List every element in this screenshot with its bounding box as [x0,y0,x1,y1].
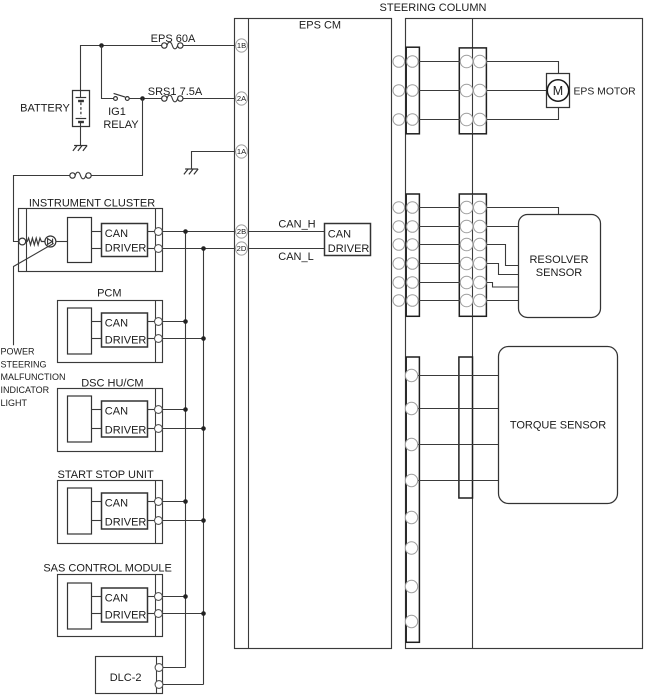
diagonal pointer to indicator light [14,243,54,345]
svg-text:STEERING COLUMN: STEERING COLUMN [380,2,487,14]
pin 1A [236,145,248,158]
steering column inner shaft line [472,19,474,649]
svg-text:CAN: CAN [105,498,128,510]
wires START STOP UNIT block to CAN driver [92,501,102,503]
instrument cluster CAN_L pin [155,245,163,253]
battery B+ [73,91,90,127]
svg-text:1A: 1A [237,147,247,156]
relay IG1 switch [114,97,118,101]
wires CAN driver to DSC HU/CM pins [148,409,155,411]
wire CAN_H into EPS CM [249,231,325,233]
svg-text:SAS CONTROL MODULE: SAS CONTROL MODULE [43,562,172,574]
DSC HU/CM inner block [68,396,92,442]
wire motor circuit row 2 [412,90,466,92]
junction dot PCM CAN_L [201,336,206,341]
PCM box [58,301,163,363]
svg-text:2A: 2A [237,94,247,103]
PCM CAN_L pin [155,335,163,343]
START STOP UNIT inner block [68,488,92,534]
wires SAS CONTROL MODULE block to CAN driver [92,596,102,598]
svg-text:SRS1 7.5A: SRS1 7.5A [148,86,203,98]
junction dot DSC HU/CM CAN_L [201,426,206,431]
DLC-2 box [96,657,163,694]
wires CAN driver to cluster pins [148,231,155,233]
svg-text:CAN: CAN [105,593,128,605]
wire resolver 5 [480,283,519,288]
wires CAN driver to START STOP UNIT pins [148,501,155,503]
svg-text:TORQUE SENSOR: TORQUE SENSOR [510,419,606,431]
svg-text:EPS 60A: EPS 60A [151,33,196,45]
wire resolver 6 [480,300,519,302]
instrument cluster box [19,209,163,272]
torque sensor connector block [406,357,419,642]
wire motor circuit row 1 [412,61,466,63]
fuse cluster feed [75,172,86,179]
SAS CONTROL MODULE inner block [68,583,92,629]
svg-text:CAN_L: CAN_L [278,251,313,263]
DSC HU/CM CAN_L pin [155,425,163,433]
wire IG branch down to cluster fuse [90,99,142,176]
pin 2D [236,242,248,255]
svg-text:DRIVER: DRIVER [105,243,147,255]
junction dot START STOP UNIT CAN_L [201,518,206,523]
junction dot SAS CONTROL MODULE CAN_H [183,594,188,599]
svg-text:START STOP UNIT: START STOP UNIT [58,469,154,481]
wire torque sensor 2 [412,408,499,410]
DSC HU/CM CAN_H pin [155,406,163,414]
wire battery negative to ground [80,122,82,145]
wire PCM to CAN_H bus [162,321,185,323]
column connector block (resolver circuit) [459,194,486,316]
shaft line over motor connector [472,48,474,134]
wire torque sensor 4 [412,480,499,482]
steering column box [406,19,643,649]
svg-text:LIGHT: LIGHT [1,398,28,408]
svg-text:RELAY: RELAY [103,119,139,131]
svg-text:INDICATOR: INDICATOR [1,385,50,395]
svg-text:MALFUNCTION: MALFUNCTION [1,372,66,382]
svg-text:RESOLVER: RESOLVER [529,254,588,266]
wire resolver 4 [480,264,519,275]
svg-text:BATTERY: BATTERY [20,103,70,115]
instrument cluster right rail [155,209,157,272]
wire cluster to pin 2B [162,231,235,233]
svg-text:POWER: POWER [1,347,36,357]
DSC HU/CM box [58,389,163,452]
wire cluster fuse to instrument cluster pin [14,176,70,242]
instrument cluster CAN_H pin [155,228,163,236]
wire connector to EPS motor phase 1 [480,62,559,74]
svg-text:CAN: CAN [105,406,128,418]
EPS motor M1 [547,74,570,108]
connector pins (motor circuit, column side) [460,55,473,68]
junction dot PCM CAN_H [183,319,188,324]
wires CAN driver to SAS CONTROL MODULE pins [148,596,155,598]
wire connector to EPS motor phase 3 [480,108,559,120]
START STOP UNIT box [58,481,163,544]
wire SAS CONTROL MODULE to CAN_H bus [162,596,185,598]
CAN driver (SAS CONTROL MODULE) [102,588,148,622]
svg-text:DRIVER: DRIVER [328,243,370,255]
EPS CM module box [235,19,392,649]
wire motor circuit row 3 [412,119,466,121]
CAN driver (DSC HU/CM) [102,401,148,437]
wire cluster to pin 2D [162,248,235,250]
svg-text:2B: 2B [237,227,246,236]
ground battery [74,145,87,147]
wire resolver circuit row 6 [412,300,466,302]
torque sensor inner connector [459,357,473,498]
junction dot battery feed [99,43,104,48]
EPS CM to column connector block (resolver circuit) [406,194,419,316]
svg-text:CAN: CAN [105,318,128,330]
ground EPS CM 1A [185,168,198,170]
CAN_H bus wire [185,232,187,668]
CAN driver (PCM) [102,313,148,347]
CAN driver (START STOP UNIT) [102,493,148,529]
svg-text:EPS MOTOR: EPS MOTOR [574,86,637,97]
wires cluster block to CAN driver [92,231,102,233]
connector pins (motor circuit, EPS CM side) [393,56,405,68]
svg-text:DRIVER: DRIVER [105,516,147,528]
connector pins (resolver circuit, column side) [460,201,473,214]
svg-text:1B: 1B [237,41,246,50]
resistor in cluster [26,238,45,245]
wire torque sensor 3 [412,444,499,446]
svg-text:DRIVER: DRIVER [105,609,147,621]
wires DSC HU/CM block to CAN driver [92,409,102,411]
svg-text:STEERING: STEERING [1,359,47,369]
wire DLC-2 to CAN_H bus [163,667,186,669]
svg-text:DSC HU/CM: DSC HU/CM [81,377,143,389]
START STOP UNIT CAN_L pin [155,517,163,525]
wire START STOP UNIT to CAN_L bus [162,520,203,522]
wire DLC-2 to CAN_L bus [163,684,204,686]
svg-text:EPS CM: EPS CM [299,20,341,32]
EPS CM to column connector block (motor circuit) [406,47,419,134]
wire SAS CONTROL MODULE to CAN_L bus [162,613,203,615]
wire START STOP UNIT to CAN_H bus [162,501,185,503]
SAS CONTROL MODULE CAN_H pin [155,593,163,601]
wire DSC HU/CM to CAN_H bus [162,409,185,411]
fuse EPS 60A [167,42,178,49]
wire DSC HU/CM to CAN_L bus [162,428,203,430]
PCM inner block [68,308,92,354]
wire PCM to CAN_L bus [162,338,203,340]
START STOP UNIT CAN_H pin [155,498,163,506]
wire resolver circuit row 3 [412,244,466,246]
SAS CONTROL MODULE CAN_L pin [155,610,163,618]
wire connector to EPS motor phase 2 [480,90,547,92]
wire IG1 relay to SRS1 fuse and pin 2A [129,98,161,100]
resolver sensor [519,215,601,318]
wire resolver circuit row 2 [412,226,466,228]
svg-text:DRIVER: DRIVER [105,424,147,436]
pin 1B [236,39,248,52]
instrument cluster left pin [19,238,26,245]
shaft line over resolver connector [472,194,474,316]
wire resolver 3 [480,245,519,266]
wire torque sensor 1 [412,375,499,377]
svg-text:2D: 2D [237,244,247,253]
CAN driver (instrument cluster) [102,224,148,257]
DLC-2 CAN_H pin [155,664,163,672]
svg-text:SENSOR: SENSOR [536,267,583,279]
CAN driver (EPS CM) [325,224,371,256]
junction dot START STOP UNIT CAN_H [183,499,188,504]
junction dot DSC HU/CM CAN_H [183,407,188,412]
PCM CAN_H pin [155,318,163,326]
DLC-2 CAN_L pin [155,681,163,689]
wire battery positive to EPS 60A fuse and pin 1B [81,46,162,98]
junction dot CAN_L at cluster [201,246,206,251]
svg-text:CAN_H: CAN_H [278,219,315,231]
torque sensor [499,347,618,504]
fuse SRS1 7.5A [167,95,178,102]
instrument cluster inner block [68,218,92,263]
connector pins (resolver circuit, EPS CM side) [393,202,405,214]
svg-text:CAN: CAN [328,228,351,240]
SAS CONTROL MODULE box [58,575,163,637]
pin 2B [236,225,248,238]
wire resolver circuit row 5 [412,282,466,284]
svg-text:M: M [553,84,563,98]
connector pins (torque sensor) [405,369,417,381]
svg-text:IG1: IG1 [108,106,126,118]
wire resolver 1 [480,208,559,215]
svg-text:DRIVER: DRIVER [105,334,147,346]
EPS CM connector rail [248,19,250,649]
CAN_L bus wire [203,249,205,685]
junction dot IG feed [140,96,145,101]
wires PCM block to CAN driver [92,321,102,323]
svg-text:PCM: PCM [97,288,121,300]
svg-text:INSTRUMENT CLUSTER: INSTRUMENT CLUSTER [29,197,155,209]
wire pin 1A to ground [192,152,236,169]
svg-text:DLC-2: DLC-2 [110,672,142,684]
junction dot CAN_H at cluster [183,229,188,234]
wire resolver circuit row 4 [412,263,466,265]
wire resolver 2 [480,226,519,228]
column connector block (motor circuit) [459,48,486,134]
instrument cluster left rail [26,209,28,272]
wire CAN_L into EPS CM [249,248,325,250]
indicator lamp (power steering malfunction light) [45,236,56,247]
pin 2A [236,92,248,105]
svg-text:CAN: CAN [105,228,128,240]
wires CAN driver to PCM pins [148,321,155,323]
junction dot SAS CONTROL MODULE CAN_L [201,611,206,616]
wire lamp to cluster block [56,241,68,243]
wire junction down to IG1 relay [102,46,114,99]
wire resolver circuit row 1 [412,207,466,209]
